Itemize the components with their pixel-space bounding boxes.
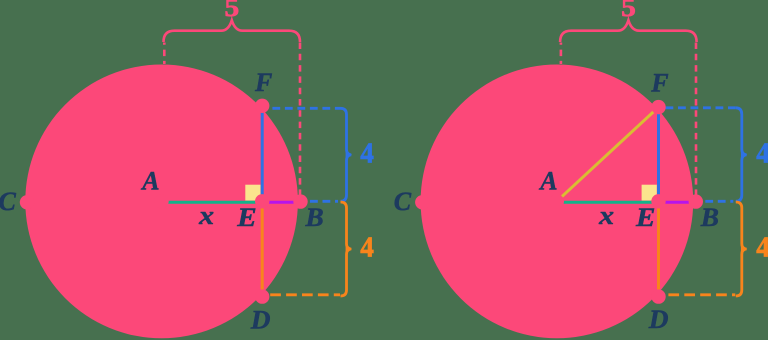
point dot D (right) [651,289,665,303]
svg-text:C: C [0,187,17,216]
circle (left), center A [25,65,298,339]
magenta segment E-B (right) [659,201,697,204]
blue dashed line F to brace (right) [659,106,736,109]
point dot B (right) [689,194,703,208]
magenta segment E-B (left) [262,201,301,204]
svg-text:E: E [635,202,655,231]
svg-text:A: A [538,167,557,196]
svg-text:4: 4 [756,138,768,170]
dashed leg right of brace 5 (left), down to B [299,43,302,202]
orange brace 4 (left) [341,202,352,296]
point dot D (left) [255,289,269,303]
point dot E (left) [255,194,269,208]
teal segment A-E (right) [557,201,659,204]
dashed leg left of brace 5 (right) [560,43,563,65]
orange chord segment E-D (right) [657,201,660,296]
svg-text:5: 5 [224,0,239,22]
dashed leg left of brace 5 (left) [163,43,166,65]
blue brace 4 (right) [736,108,747,202]
svg-text:B: B [700,202,719,231]
svg-text:x: x [198,202,214,231]
yellow hypotenuse A-F (right) [557,107,659,201]
orange dashed line D to brace (left) [262,293,340,296]
point dot E (right) [651,194,665,208]
orange brace 4 (right) [736,202,747,296]
orange chord segment E-D (left) [261,201,264,296]
blue dashed line F to brace (left) [262,107,340,110]
svg-text:D: D [250,305,271,334]
blue dashed line B to brace (right) [697,200,734,203]
point dot F (left) [255,99,269,113]
brace 5 (left top) [164,20,301,42]
svg-text:B: B [304,202,323,231]
dashed leg right of brace 5 (right), down to B [695,43,698,202]
point dot A (right) [550,194,564,208]
point dot B (left) [293,194,307,208]
brace 5 (right top) [560,20,697,42]
point dot F (right) [651,100,665,114]
point dot C (right) [415,195,429,209]
svg-text:A: A [140,167,159,196]
point dot A (left) [154,194,168,208]
svg-text:F: F [650,68,668,97]
svg-text:4: 4 [756,232,768,264]
yellow right-angle square at E (left) [245,185,260,201]
blue brace 4 (left) [341,108,352,201]
orange dashed line D to brace (right) [659,293,736,296]
svg-text:C: C [394,187,412,216]
teal segment A-E (left) [162,201,263,204]
svg-text:x: x [598,202,614,231]
svg-text:5: 5 [621,0,636,22]
point dot C (left) [20,195,34,209]
svg-text:4: 4 [360,232,374,264]
circle (right), center A [421,65,694,339]
blue dashed line B to brace (left) [302,200,339,203]
yellow right-angle square at E (right) [642,185,657,201]
svg-text:F: F [254,68,272,97]
svg-text:D: D [648,305,669,334]
svg-text:E: E [236,202,256,231]
blue chord segment F-E (left) [261,106,264,202]
blue chord segment F-E (right) [657,106,660,202]
svg-text:4: 4 [360,138,374,170]
